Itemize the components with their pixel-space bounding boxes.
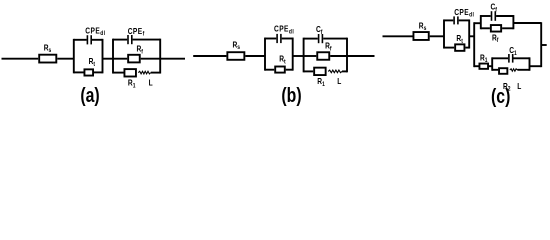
svg-text:L: L xyxy=(337,77,342,87)
svg-text:(c): (c) xyxy=(491,85,510,107)
svg-text:L: L xyxy=(517,81,522,91)
svg-text:(a): (a) xyxy=(80,84,99,106)
svg-text:(b): (b) xyxy=(281,84,301,106)
svg-text:L: L xyxy=(149,78,154,88)
